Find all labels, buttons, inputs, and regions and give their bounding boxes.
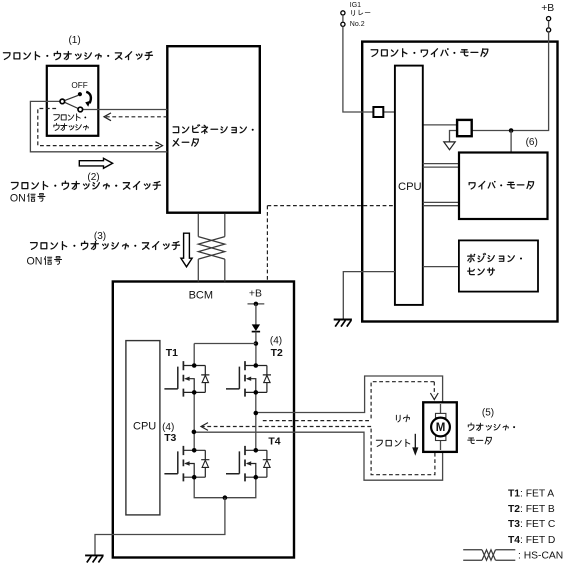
block arrow (2) washer switch ON signal — [79, 158, 112, 168]
+B connector circle lower — [547, 28, 551, 32]
washer motor box — [423, 402, 457, 452]
dashed arrow head into washer motor — [430, 393, 438, 400]
svg-text:: HS-CAN: : HS-CAN — [518, 550, 563, 561]
svg-text:T1: FET A: T1: FET A — [508, 489, 554, 500]
HS-CAN twisted pair symbol (vertical) — [198, 237, 225, 260]
junction top rail / +B column — [254, 341, 259, 346]
wire switch common to meter (via left loop) — [30, 101, 167, 151]
svg-text:ON: ON — [10, 193, 26, 205]
BCM CPU box — [126, 341, 160, 515]
wire diode to top rail — [255, 332, 257, 366]
svg-text:(2): (2) — [87, 172, 99, 183]
BCM box — [113, 282, 294, 558]
wire CPU left to ground — [343, 272, 395, 319]
svg-text:OFF: OFF — [71, 81, 87, 90]
BCM +B terminal bar — [248, 303, 265, 305]
wire +B down inside box — [472, 32, 549, 131]
washer motor label line2 — [468, 437, 492, 444]
wire harness outline to washer motor (from T2 junction) — [194, 376, 443, 480]
wire IG1 down to connector — [343, 26, 374, 112]
dashed wire washer to BCM (lower, arrow into BCM) — [202, 426, 371, 428]
junction bottom rail to ground — [223, 495, 228, 500]
label (3) front washer switch ON — [31, 241, 180, 249]
connector square (IG1 input) — [373, 107, 383, 117]
svg-text:T3: T3 — [164, 433, 176, 444]
T4 drain junction — [254, 448, 259, 453]
wire switch lower contact to combination meter — [83, 109, 168, 111]
dashed HS-CAN line to front wiper motor CPU — [267, 205, 395, 207]
svg-text:(6): (6) — [526, 137, 538, 148]
svg-text:T4: FET D: T4: FET D — [508, 535, 555, 546]
label (3) ON-shingou kanji — [44, 257, 61, 265]
ground symbol (BCM) — [85, 555, 104, 562]
transistor T1 (N-ch MOSFET with body diode) — [164, 361, 209, 397]
T3 drain junction — [192, 448, 197, 453]
open triangle arrow (down) under connector2 — [444, 142, 455, 150]
wire rail down to T1 drain — [193, 344, 195, 366]
connector square (motor drive output) — [457, 120, 472, 136]
HS-CAN wire left lower — [197, 259, 199, 281]
junction +B to wiper motor — [509, 128, 514, 133]
washer motor label line1 — [468, 423, 515, 431]
combination meter label line1 — [173, 125, 254, 134]
wire bottom rail T3-T4 — [194, 477, 256, 498]
ground symbol (front wiper motor) — [334, 320, 352, 327]
svg-text:M: M — [436, 422, 446, 434]
transistor T3 (N-ch MOSFET with body diode) — [164, 446, 209, 482]
svg-text:No.2: No.2 — [350, 21, 365, 28]
svg-text:T4: T4 — [268, 437, 280, 448]
svg-text:T3: FET C: T3: FET C — [508, 519, 556, 530]
dashed HS-CAN branch down to BCM — [266, 206, 268, 282]
wire connector2 stub to output arrow — [450, 131, 458, 142]
wiper motor label — [469, 181, 533, 189]
switch box (front washer switch) — [47, 66, 99, 136]
dashed arrow head (right) — [156, 142, 163, 150]
wire +B circles link — [548, 21, 550, 28]
front wiper motor title — [371, 48, 488, 56]
T3 source junction — [192, 475, 197, 480]
combination meter box — [167, 46, 259, 213]
wire top rail T1-T2 — [194, 343, 256, 345]
junction T2-T4 / washer wire A — [254, 411, 259, 416]
svg-text:T2: FET B: T2: FET B — [508, 504, 555, 515]
HS-CAN wire left upper — [197, 214, 199, 237]
wire junction down to wiper motor box — [510, 131, 512, 153]
svg-text:(4): (4) — [270, 336, 282, 347]
washer label rear — [396, 415, 409, 422]
position sensor label line2 — [468, 268, 495, 275]
transistor T4 (N-ch MOSFET with body diode) — [226, 446, 271, 482]
diode (reverse battery protection) — [252, 324, 260, 331]
+B connector circle upper — [547, 17, 551, 21]
double signal lines CPU to wiper motor (lower pair) — [423, 202, 459, 205]
wire IG1 circles link — [342, 15, 344, 22]
svg-text:ON: ON — [27, 256, 43, 268]
svg-text:T2: T2 — [271, 348, 283, 359]
svg-text:IG1: IG1 — [350, 2, 361, 9]
HS-CAN wire right lower — [224, 259, 226, 281]
svg-text:CPU: CPU — [398, 181, 422, 193]
wire T1 source to T3 drain — [193, 392, 195, 450]
svg-text:(1): (1) — [68, 35, 80, 46]
svg-text:(5): (5) — [482, 407, 494, 418]
IG1 connector circle lower — [341, 22, 345, 26]
front washer switch title (1) — [3, 51, 152, 59]
washer label front — [376, 439, 409, 446]
switch blade lines — [65, 95, 79, 108]
T1 source junction — [192, 390, 197, 395]
dashed arrow head (left) — [104, 113, 111, 121]
washer motor brush bottom — [436, 436, 446, 440]
position sensor label line1 — [468, 253, 522, 262]
double signal lines CPU to wiper motor (upper pair) — [423, 164, 459, 168]
wire T2 source to T4 drain — [255, 392, 257, 450]
svg-text:+B: +B — [249, 289, 262, 300]
svg-text:T1: T1 — [166, 348, 178, 359]
dashed wire BCM to washer (upper) — [263, 420, 371, 422]
T2 drain junction — [254, 363, 259, 368]
wire CPU to position sensor — [423, 266, 459, 268]
position sensor box — [459, 240, 538, 291]
dashed washer routing box — [371, 382, 435, 475]
dashed arrow head (into BCM) — [201, 423, 208, 431]
washer motor circle M — [431, 418, 450, 437]
svg-text:BCM: BCM — [189, 289, 213, 301]
washer motor brush top — [436, 413, 446, 417]
washer motor lead top — [440, 404, 442, 450]
switch lower contact terminal — [78, 107, 83, 112]
BCM +B junction — [254, 302, 259, 307]
dashed wire switch to meter (loop) — [38, 109, 162, 146]
legend HS-CAN twisted pair symbol — [463, 550, 515, 560]
switch actuation curved arrow — [86, 92, 91, 103]
svg-text:(4): (4) — [162, 422, 174, 433]
T2 source junction — [254, 390, 259, 395]
svg-text:(3): (3) — [94, 231, 106, 242]
wire connector1 to CPU — [383, 111, 395, 113]
junction T1-T3 / washer wire B — [192, 430, 197, 435]
combination meter label line2 — [173, 139, 198, 147]
T1 drain junction — [192, 363, 197, 368]
HS-CAN wire right upper — [224, 214, 226, 237]
wiper motor box — [459, 153, 548, 220]
wire CPU to connector2 — [423, 124, 457, 126]
svg-text:+B: +B — [541, 3, 554, 14]
wire +B down to diode — [255, 304, 257, 325]
label (2) ON-shingou kanji — [28, 194, 45, 202]
switch inner label line1 — [54, 114, 86, 121]
wire bottom rail to BCM ground — [95, 498, 225, 556]
down arrow beside front label — [414, 434, 416, 449]
label (2) front washer switch ON — [11, 181, 160, 189]
switch inner label line2 — [54, 123, 88, 130]
front wiper motor assembly box — [362, 42, 557, 322]
switch upper contact (OFF position dot) — [78, 92, 82, 96]
T4 source junction — [254, 475, 259, 480]
wiper motor CPU box — [395, 66, 423, 305]
transistor T2 (N-ch MOSFET with body diode) — [226, 361, 271, 397]
dashed arrow meter to switch (left-pointing) — [105, 116, 167, 118]
block arrow (3) downward — [181, 233, 192, 267]
IG1 connector circle upper — [341, 11, 345, 15]
switch common terminal — [60, 99, 65, 104]
svg-text:CPU: CPU — [133, 420, 156, 432]
IG1 relay label — [352, 10, 370, 16]
